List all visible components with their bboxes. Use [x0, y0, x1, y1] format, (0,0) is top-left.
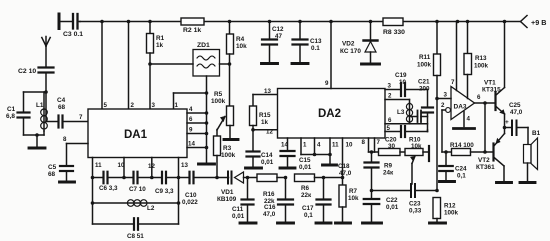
- wire pin12 DA2: [253, 129, 278, 136]
- wire feedback: [483, 103, 487, 154]
- svg-text:9: 9: [189, 127, 193, 134]
- ground: [278, 222, 294, 225]
- svg-text:3: 3: [388, 83, 392, 90]
- svg-text:C11: C11: [232, 206, 244, 213]
- zener VD2: [340, 22, 378, 63]
- svg-text:DA1: DA1: [124, 129, 148, 141]
- svg-text:C13: C13: [310, 38, 322, 45]
- node rail-DA3: [456, 20, 460, 24]
- node rail-R4: [228, 20, 232, 24]
- filter ZD1: [193, 42, 220, 76]
- svg-text:КВ109: КВ109: [217, 196, 237, 203]
- wiper arrow R10: [411, 157, 415, 185]
- svg-text:C22: C22: [386, 197, 398, 204]
- ground: [362, 63, 380, 66]
- svg-text:C8 51: C8 51: [127, 233, 144, 240]
- svg-text:0,01: 0,01: [299, 164, 312, 171]
- svg-text:4: 4: [189, 106, 193, 113]
- capacitor plate: [428, 146, 430, 161]
- potentiometer R5: [211, 91, 234, 138]
- svg-text:C17: C17: [302, 205, 314, 212]
- ground: [199, 163, 215, 166]
- node rail-VD2: [369, 20, 373, 24]
- resistor R13: [464, 22, 489, 99]
- capacitor C7: [124, 172, 152, 193]
- op-amp DA3: [451, 87, 475, 120]
- +9V terminal: [521, 16, 547, 28]
- svg-text:24к: 24к: [383, 170, 394, 177]
- svg-text:0,01: 0,01: [232, 213, 245, 220]
- ground: [262, 62, 278, 65]
- resistor R9: [375, 149, 401, 177]
- svg-text:10: 10: [399, 79, 407, 86]
- wire pin1-4-11: [301, 138, 339, 164]
- svg-text:R7: R7: [349, 188, 358, 195]
- transistor VT1: [482, 22, 506, 130]
- wire ZD1-right: [220, 62, 232, 66]
- svg-text:2: 2: [388, 93, 392, 100]
- svg-text:0,1: 0,1: [457, 173, 466, 180]
- resistor R3: [214, 130, 236, 178]
- svg-text:C18: C18: [338, 163, 350, 170]
- ground: [363, 222, 382, 225]
- svg-text:8: 8: [63, 136, 67, 143]
- resistor R15: [250, 95, 272, 132]
- svg-text:200: 200: [419, 86, 430, 93]
- capacitor C25: [505, 102, 529, 135]
- svg-text:0,01: 0,01: [386, 204, 399, 211]
- svg-text:10: 10: [118, 162, 125, 169]
- svg-text:КТ361: КТ361: [476, 164, 495, 171]
- svg-text:C15: C15: [299, 157, 311, 164]
- svg-text:10k: 10k: [236, 43, 247, 50]
- wire pin8-7: [362, 138, 381, 154]
- capacitor C16: [263, 178, 293, 222]
- capacitor C18: [338, 152, 379, 192]
- svg-text:R8 330: R8 330: [383, 29, 405, 36]
- svg-text:1k: 1k: [261, 119, 269, 126]
- capacitor C12: [262, 22, 284, 62]
- svg-text:0.1: 0.1: [311, 45, 320, 52]
- wire pin6 DA2: [385, 117, 428, 124]
- input terminal: [59, 14, 73, 29]
- svg-text:C12: C12: [272, 26, 284, 33]
- svg-text:1k: 1k: [156, 42, 164, 49]
- svg-text:L3: L3: [397, 109, 405, 116]
- svg-text:C6 3,3: C6 3,3: [99, 185, 118, 192]
- svg-text:12: 12: [266, 129, 273, 136]
- svg-text:68: 68: [58, 104, 66, 111]
- svg-text:5: 5: [387, 125, 391, 132]
- svg-text:VD1: VD1: [221, 189, 234, 196]
- capacitor C20: [385, 125, 428, 150]
- node rail-9: [329, 20, 333, 24]
- svg-text:C19: C19: [395, 72, 407, 79]
- varicap VD1: [217, 172, 257, 204]
- svg-text:7: 7: [451, 79, 455, 86]
- capacitor C22: [364, 191, 399, 222]
- svg-text:7: 7: [79, 114, 83, 121]
- pin 7 label: [79, 114, 83, 121]
- svg-text:R5: R5: [214, 91, 223, 98]
- ground: [430, 222, 446, 225]
- svg-text:3: 3: [444, 92, 448, 99]
- svg-text:5: 5: [104, 102, 108, 109]
- capacitor C13: [293, 22, 323, 62]
- wire: [324, 176, 345, 180]
- svg-text:C5: C5: [48, 164, 57, 171]
- ground: [29, 147, 45, 150]
- svg-text:0,01: 0,01: [261, 159, 274, 166]
- wire pin14: [187, 141, 208, 150]
- ground: [280, 167, 295, 170]
- svg-text:12: 12: [148, 163, 155, 170]
- ground: [497, 181, 512, 184]
- ground: [60, 181, 75, 184]
- svg-text:C4: C4: [57, 97, 66, 104]
- svg-text:L2: L2: [147, 205, 155, 212]
- svg-text:6: 6: [388, 117, 392, 124]
- svg-text:C3 0.1: C3 0.1: [63, 31, 83, 38]
- svg-text:100k: 100k: [417, 62, 432, 69]
- resistor R4: [227, 22, 248, 107]
- svg-text:100k: 100k: [211, 98, 226, 105]
- wire pin1: [174, 93, 179, 109]
- potentiometer R10: [400, 137, 428, 156]
- svg-text:B1: B1: [532, 130, 541, 137]
- node rail-C13: [298, 20, 302, 24]
- ground: [224, 138, 238, 141]
- svg-text:0,022: 0,022: [182, 199, 198, 206]
- inductor L2: [93, 200, 179, 212]
- capacitor C23: [372, 184, 439, 215]
- svg-text:C2 10: C2 10: [18, 68, 36, 75]
- svg-text:47,0: 47,0: [339, 170, 352, 177]
- wiper arrow R5: [217, 117, 225, 131]
- wire pin8: [63, 136, 88, 166]
- wire pin10: [118, 158, 126, 180]
- svg-text:14: 14: [281, 142, 288, 149]
- svg-text:C21: C21: [418, 79, 430, 86]
- svg-text:2: 2: [441, 102, 445, 109]
- wire pin10: [343, 138, 353, 185]
- node rail-C12: [268, 20, 272, 24]
- svg-text:2: 2: [131, 102, 135, 109]
- svg-text:0,1: 0,1: [304, 212, 313, 219]
- svg-text:R4: R4: [236, 36, 245, 43]
- node rail-5: [100, 20, 104, 24]
- transistor VT2: [476, 128, 505, 182]
- svg-text:R9: R9: [384, 163, 393, 170]
- svg-text:R6: R6: [301, 185, 310, 192]
- svg-text:R3: R3: [223, 145, 232, 152]
- svg-text:6,8: 6,8: [6, 113, 15, 120]
- svg-text:R14 100: R14 100: [450, 142, 474, 149]
- resistor R8: [383, 18, 405, 36]
- svg-text:R16: R16: [263, 191, 275, 198]
- svg-text:4: 4: [467, 116, 471, 123]
- svg-text:R15: R15: [259, 112, 271, 119]
- capacitor C19: [385, 72, 428, 96]
- capacitor C2: [18, 68, 54, 76]
- pin labels DA1 top: [104, 102, 156, 109]
- svg-text:1: 1: [303, 142, 307, 149]
- wire bus: [206, 93, 208, 163]
- ground: [292, 62, 308, 65]
- svg-text:C16: C16: [264, 204, 276, 211]
- capacitor C1: [6, 92, 30, 135]
- IC DA1: [88, 109, 187, 158]
- svg-text:100k: 100k: [444, 210, 459, 217]
- svg-text:КС 170: КС 170: [340, 48, 361, 55]
- capacitor C21: [418, 79, 433, 132]
- node rail-R13: [466, 20, 470, 24]
- svg-text:VT1: VT1: [484, 80, 496, 87]
- node rail-R1: [148, 20, 152, 24]
- capacitor C3: [63, 14, 83, 38]
- resistor R11: [417, 22, 441, 76]
- wire pin11: [91, 158, 102, 225]
- svg-text:100k: 100k: [474, 63, 489, 70]
- svg-text:7: 7: [377, 139, 381, 146]
- svg-text:+9 В: +9 В: [531, 18, 546, 27]
- capacitor C14: [247, 130, 274, 167]
- capacitor tank: [410, 111, 428, 123]
- wire pin4 DA3: [464, 112, 471, 127]
- svg-text:C25: C25: [509, 102, 521, 109]
- capacitor C4: [46, 97, 88, 128]
- wire pin5: [101, 22, 103, 110]
- svg-text:11: 11: [95, 162, 102, 169]
- svg-text:ZD1: ZD1: [197, 42, 210, 49]
- svg-text:68: 68: [48, 171, 56, 178]
- capacitor C15: [281, 138, 312, 171]
- svg-text:DA3: DA3: [454, 104, 467, 111]
- wire: [24, 133, 45, 146]
- svg-text:22к: 22к: [301, 192, 312, 199]
- wire pin2 DA2: [385, 93, 410, 104]
- capacitor C9: [152, 172, 179, 195]
- wire pin2: [128, 22, 130, 110]
- svg-text:L1: L1: [36, 102, 44, 109]
- svg-text:47,0: 47,0: [263, 211, 276, 218]
- svg-text:6: 6: [189, 116, 193, 123]
- wire pin6: [187, 116, 208, 125]
- node rail-R11: [435, 20, 439, 24]
- svg-text:100k: 100k: [221, 152, 236, 159]
- resistor R1: [147, 22, 165, 110]
- wire: [24, 73, 48, 122]
- svg-text:R2 1k: R2 1k: [183, 27, 201, 34]
- wire pin9: [187, 127, 208, 136]
- svg-text:C10: C10: [185, 192, 197, 199]
- wire pin13: [177, 158, 189, 225]
- resistor R6: [295, 174, 326, 199]
- resistor R7: [339, 185, 359, 222]
- capacitor C5: [48, 164, 73, 181]
- svg-text:R1: R1: [156, 35, 165, 42]
- capacitor C24: [439, 152, 467, 180]
- pin2 input: [441, 102, 450, 152]
- svg-text:1: 1: [175, 102, 179, 109]
- svg-text:6: 6: [477, 94, 481, 101]
- ground: [316, 222, 331, 225]
- svg-text:C7 10: C7 10: [129, 186, 146, 193]
- inductor L1: [36, 92, 47, 135]
- IC DA2: [278, 89, 386, 139]
- svg-text:КТ315: КТ315: [482, 87, 501, 94]
- svg-text:R13: R13: [475, 55, 487, 62]
- svg-text:9: 9: [325, 80, 329, 87]
- svg-text:R11: R11: [419, 54, 431, 61]
- node rail-VT1: [503, 20, 507, 24]
- capacitor C6: [93, 172, 125, 192]
- capacitor C11: [232, 178, 254, 222]
- svg-text:C23: C23: [409, 201, 421, 208]
- svg-text:+: +: [505, 119, 509, 126]
- wire pin12: [148, 158, 155, 180]
- wire pin13 DA2: [253, 88, 278, 95]
- ground: [440, 180, 455, 183]
- wire output: [475, 94, 496, 105]
- svg-text:10k: 10k: [348, 195, 359, 202]
- wire ZD1-left: [148, 62, 193, 66]
- svg-text:47,0: 47,0: [510, 109, 523, 116]
- wire pin7 DA3: [451, 22, 457, 91]
- svg-text:0,33: 0,33: [409, 208, 422, 215]
- svg-text:DA2: DA2: [318, 108, 341, 120]
- ground: [336, 222, 351, 225]
- capacitor C10: [179, 172, 229, 206]
- speaker B1: [524, 128, 541, 182]
- resistor R16: [257, 174, 287, 205]
- svg-text:VT2: VT2: [478, 157, 490, 164]
- wire pin4: [187, 106, 208, 115]
- svg-text:3: 3: [152, 102, 156, 109]
- svg-text:C1: C1: [7, 106, 16, 113]
- svg-text:13: 13: [264, 88, 271, 95]
- svg-text:C9 3,3: C9 3,3: [155, 188, 174, 195]
- ground: [323, 164, 337, 167]
- svg-text:VD2: VD2: [342, 41, 355, 48]
- node rail-2: [127, 20, 131, 24]
- svg-text:C24: C24: [455, 166, 467, 173]
- svg-text:10k: 10k: [411, 143, 422, 150]
- ground: [240, 222, 256, 225]
- svg-text:11: 11: [332, 142, 339, 149]
- antenna WA1: [42, 37, 50, 67]
- svg-text:8: 8: [362, 139, 366, 146]
- wire pin9 DA2: [325, 22, 331, 89]
- ground: [246, 167, 262, 170]
- svg-text:14: 14: [188, 141, 195, 148]
- svg-text:R12: R12: [444, 203, 456, 210]
- ground: [520, 181, 535, 184]
- inductor L3: [397, 103, 413, 124]
- svg-text:4: 4: [317, 142, 321, 149]
- svg-text:10: 10: [346, 142, 353, 149]
- svg-text:47: 47: [275, 33, 283, 40]
- wire pin3 DA3: [437, 92, 451, 99]
- capacitor C8: [93, 218, 179, 240]
- svg-text:13: 13: [181, 162, 188, 169]
- svg-text:C14: C14: [261, 152, 273, 159]
- ground: [454, 127, 475, 130]
- resistor R12: [433, 198, 459, 222]
- capacitor C17: [302, 178, 331, 222]
- wire +9V rail: [80, 21, 521, 23]
- resistor R2: [181, 18, 204, 34]
- wire ZD1-bottom: [174, 76, 209, 95]
- wire input node: [435, 76, 439, 191]
- resistor R14: [442, 142, 485, 156]
